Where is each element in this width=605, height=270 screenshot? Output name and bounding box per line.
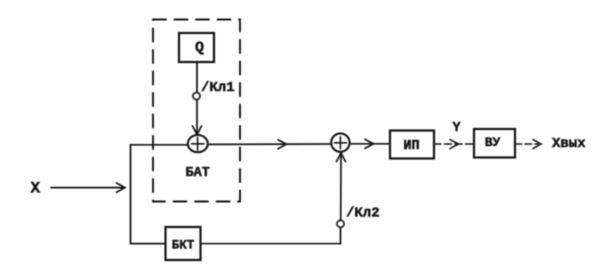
block VU xyxy=(474,129,515,158)
svg-text:X: X xyxy=(31,179,41,197)
summing junction S2 xyxy=(331,133,349,151)
wire IP to VU (dashed, arrow) xyxy=(434,140,474,149)
summing junction S1 xyxy=(188,135,208,152)
svg-text:ВУ: ВУ xyxy=(485,135,501,150)
wire S1 to S2 with arrow xyxy=(208,140,331,149)
wire bottom feedback left segment xyxy=(131,243,166,245)
wire S2 to block IP with arrow xyxy=(350,139,390,148)
block BKT xyxy=(166,227,201,260)
block Q xyxy=(179,33,214,62)
wire X input arrow xyxy=(51,183,125,192)
wire vertical branch at x=130 xyxy=(130,145,132,244)
dashed box BAT boundary xyxy=(153,20,240,202)
wire Kl2 to S2 (arrow up) xyxy=(337,153,346,220)
wire up to Kl2 xyxy=(340,228,342,244)
block IP xyxy=(390,131,434,159)
wire bottom feedback right segment xyxy=(201,243,341,245)
wire VU to output (dashed, arrow) xyxy=(515,140,541,149)
switch contact Kl2 xyxy=(337,220,344,227)
svg-text:/Кл2: /Кл2 xyxy=(346,206,380,222)
svg-text:/Кл1: /Кл1 xyxy=(201,80,235,96)
svg-text:Хвых: Хвых xyxy=(552,136,586,152)
wire Q to Kl1 xyxy=(196,62,198,92)
switch contact Kl1 xyxy=(193,92,200,99)
svg-text:ИП: ИП xyxy=(403,139,419,154)
wire input vertical to S1 xyxy=(131,144,188,146)
svg-text:Q: Q xyxy=(195,40,204,57)
svg-text:Y: Y xyxy=(453,121,462,136)
wire Kl1 to summing junction S1 (arrow down) xyxy=(193,100,202,135)
svg-text:БАТ: БАТ xyxy=(186,166,210,181)
svg-text:БКТ: БКТ xyxy=(172,239,195,253)
